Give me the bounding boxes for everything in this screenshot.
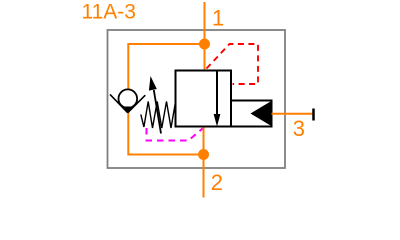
node junction 1	[199, 39, 210, 50]
pilot poppet triangle	[251, 102, 271, 126]
wire port 2	[203, 127, 205, 198]
wire bypass loop left (node 1 to node 2)	[128, 44, 204, 155]
seat line right	[128, 95, 146, 113]
pilot stage box	[231, 101, 272, 127]
flow arrow shaft	[216, 72, 218, 115]
seat fill triangle	[123, 107, 134, 113]
wire port 1 (line to node 1)	[204, 2, 206, 71]
svg-text:3: 3	[293, 116, 305, 141]
svg-text:1: 1	[212, 5, 224, 30]
seat line left	[110, 94, 128, 112]
enclosure boundary	[108, 30, 286, 168]
flow arrow head	[214, 114, 221, 127]
wire port 3	[272, 113, 314, 115]
port 3 plug tick	[312, 109, 315, 121]
pilot line red dashed	[207, 44, 259, 84]
spring (zigzag)	[141, 102, 176, 129]
svg-text:11A-3: 11A-3	[82, 1, 136, 24]
adjustment arrow shaft	[154, 90, 161, 134]
drain line magenta dashed	[147, 128, 203, 141]
ball check circle	[119, 89, 138, 108]
node junction 2	[198, 149, 209, 160]
valve envelope U1	[176, 71, 232, 127]
adjustment arrow head	[149, 76, 157, 91]
svg-text:2: 2	[211, 170, 223, 195]
